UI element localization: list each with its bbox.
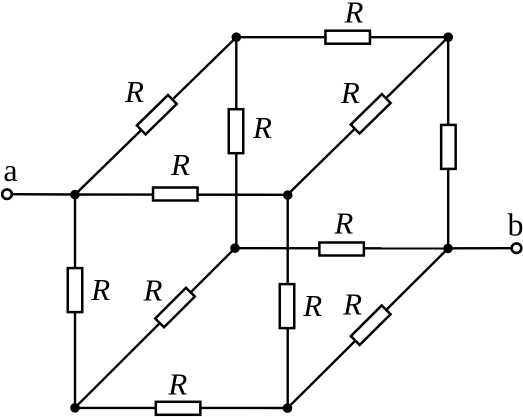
- svg-text:R: R: [333, 206, 353, 241]
- svg-text:R: R: [344, 0, 364, 30]
- svg-text:R: R: [342, 286, 362, 321]
- svg-text:R: R: [124, 74, 144, 109]
- svg-text:R: R: [302, 288, 322, 323]
- svg-text:a: a: [3, 152, 17, 188]
- svg-text:b: b: [508, 207, 523, 243]
- svg-text:R: R: [252, 110, 272, 145]
- svg-text:R: R: [143, 273, 163, 308]
- svg-text:R: R: [90, 272, 110, 307]
- svg-text:R: R: [167, 367, 187, 402]
- svg-text:R: R: [170, 147, 190, 182]
- svg-text:R: R: [340, 75, 360, 110]
